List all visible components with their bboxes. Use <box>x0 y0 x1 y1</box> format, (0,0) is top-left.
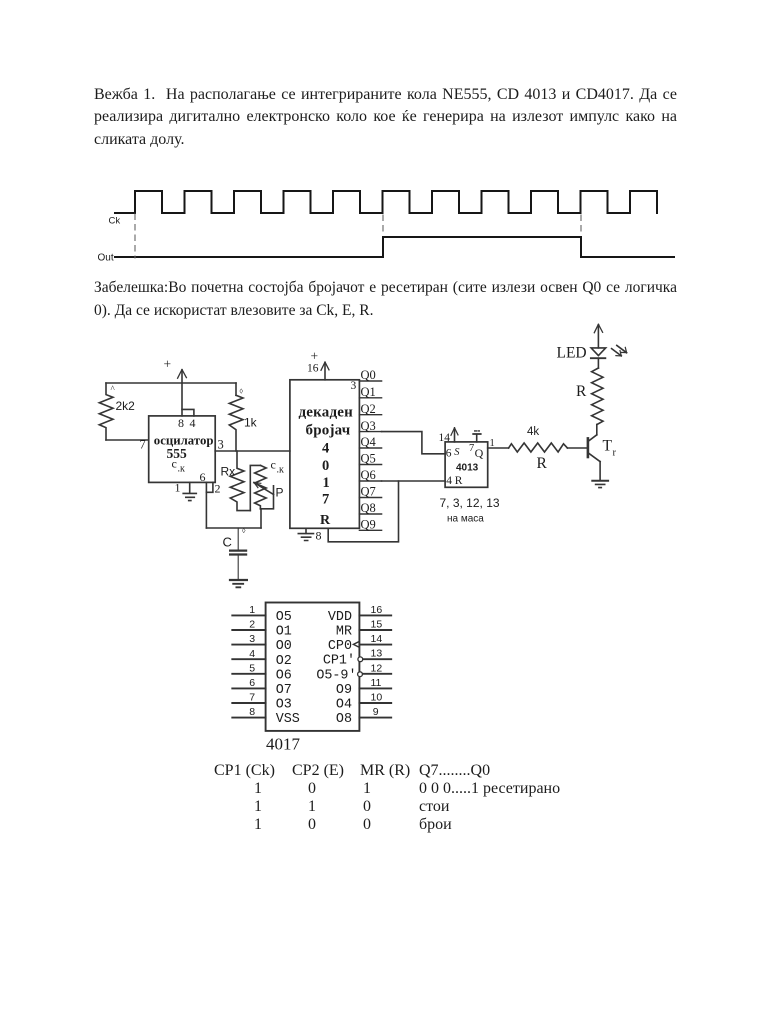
node dashed marker rising edge <box>382 215 384 236</box>
pin label R (4013) <box>455 475 463 487</box>
svg-text:6: 6 <box>249 677 255 689</box>
ground below C <box>230 580 247 587</box>
svg-text:1k: 1k <box>244 416 258 430</box>
svg-text:Out: Out <box>98 253 114 264</box>
wire Q6 branch to MR <box>328 481 398 542</box>
svg-text:4: 4 <box>249 648 255 660</box>
pin 5 lead <box>232 673 265 675</box>
pin number 9 <box>373 706 379 718</box>
wire emitter <box>599 462 601 481</box>
net label Q3 <box>361 419 376 433</box>
svg-text:9: 9 <box>373 706 379 718</box>
pin number 14 <box>371 633 383 645</box>
value label 2k2 <box>116 399 136 413</box>
pin 8 ground 4017 <box>298 528 313 540</box>
label 555 <box>167 446 188 461</box>
LED light arrow 1 <box>612 349 622 356</box>
svg-text:Ck: Ck <box>109 216 121 227</box>
resistor 1k <box>229 395 243 451</box>
pin 1 ground 555 <box>183 482 196 500</box>
pin number 1 <box>249 604 255 616</box>
pin label 8 (555) <box>178 416 184 430</box>
pin number 13 <box>371 648 383 660</box>
net label Q6 <box>361 468 376 482</box>
svg-text:MR: MR <box>336 625 352 640</box>
wire P bottom to rail <box>260 509 262 528</box>
note paragraph <box>94 277 677 322</box>
label c_k 555 <box>172 457 186 475</box>
net label Q2 <box>361 402 376 416</box>
svg-text:4013: 4013 <box>456 463 479 474</box>
svg-text:VSS: VSS <box>276 712 300 727</box>
label Ck (timing) <box>109 216 121 227</box>
node dashed marker t0 <box>134 214 136 258</box>
marker diamond above 1k <box>240 389 244 396</box>
pin 10 lead <box>359 702 391 704</box>
pin number 10 <box>371 692 383 704</box>
power + arrow 4017 pin 16 <box>321 362 329 380</box>
wire base <box>567 447 586 449</box>
pin name VDD <box>328 610 352 625</box>
svg-text:16: 16 <box>307 363 319 375</box>
svg-text:O5: O5 <box>276 610 292 625</box>
svg-text:Q5: Q5 <box>361 452 376 466</box>
pin Q3 <box>359 431 381 433</box>
svg-text:3: 3 <box>351 380 357 392</box>
wire bottom rail <box>206 527 261 529</box>
svg-text:Q4: Q4 <box>361 435 377 449</box>
svg-text:O5-9′: O5-9′ <box>316 668 356 683</box>
pin 13 lead <box>359 658 391 660</box>
svg-text:1: 1 <box>249 604 255 616</box>
pin label 6 (4013) <box>446 448 452 460</box>
svg-text:Q9: Q9 <box>361 518 376 532</box>
note na masa <box>447 514 484 525</box>
label digit 0 <box>322 458 329 474</box>
svg-text:R: R <box>537 455 548 472</box>
svg-text:Q6: Q6 <box>361 468 376 482</box>
svg-text:6: 6 <box>446 448 452 460</box>
pin Q2 <box>359 414 381 416</box>
pin 12 lead <box>359 673 391 675</box>
net label Q0 <box>361 368 376 382</box>
svg-text:O8: O8 <box>336 712 352 727</box>
svg-text:на маса: на маса <box>447 514 484 525</box>
label + supply 4017 <box>311 349 319 364</box>
counter U2 4017 box <box>290 380 360 529</box>
svg-text:7: 7 <box>469 443 474 454</box>
svg-text:с: с <box>172 457 177 471</box>
svg-text:O9: O9 <box>336 683 352 698</box>
pin number 5 <box>249 662 255 674</box>
pin number 12 <box>371 662 383 674</box>
pin 8 lead <box>232 717 265 719</box>
pin label Q (4013) <box>475 446 484 460</box>
net label Q8 <box>361 501 376 515</box>
note 7,3,12,13 <box>440 496 500 510</box>
svg-text:O0: O0 <box>276 639 292 654</box>
svg-text:декаден: декаден <box>299 405 354 421</box>
pin label 2 (555) <box>215 482 221 496</box>
svg-text:7: 7 <box>322 492 329 508</box>
diode LED <box>591 348 606 368</box>
pin name O5-9 <box>316 668 356 683</box>
svg-text:S: S <box>454 447 460 458</box>
pin label 14 (4013) <box>439 432 451 444</box>
clock triangle CP0 <box>353 642 359 648</box>
svg-text:LED: LED <box>557 345 587 362</box>
wire LED anode up <box>597 325 599 348</box>
svg-text:O1: O1 <box>276 625 292 640</box>
net label Q5 <box>361 452 376 466</box>
svg-text:◊: ◊ <box>240 389 244 396</box>
pin 9 lead <box>359 717 391 719</box>
pin name CP0 <box>328 639 352 654</box>
wire Q3 to 4013 S <box>382 432 446 454</box>
pin label 16 (4017) <box>307 363 319 375</box>
pin number 3 <box>249 633 255 645</box>
svg-text:.к: .к <box>178 464 186 475</box>
pin name O2 <box>276 654 292 669</box>
potentiometer P wiper arrow <box>254 483 274 495</box>
svg-text:Q2: Q2 <box>361 402 376 416</box>
label R input 4017 <box>320 513 331 528</box>
label c_k node <box>271 458 285 476</box>
svg-text:+: + <box>311 349 319 364</box>
svg-text:Q: Q <box>475 446 484 460</box>
value label P <box>276 486 284 500</box>
value label R collector <box>576 383 587 400</box>
svg-text:2: 2 <box>249 619 255 631</box>
op-amp U1 555 box <box>149 416 216 483</box>
svg-text:O2: O2 <box>276 654 292 669</box>
svg-text:1: 1 <box>175 481 181 495</box>
pin label 4 (555) <box>190 416 196 430</box>
svg-text:^: ^ <box>111 384 116 394</box>
svg-text:3: 3 <box>218 438 224 452</box>
label Out (timing) <box>98 253 114 264</box>
svg-text:4017: 4017 <box>266 735 301 754</box>
ground emitter <box>592 481 608 488</box>
pin name O6 <box>276 668 292 683</box>
node dashed marker falling edge <box>580 215 582 235</box>
pin Q4 <box>359 447 381 449</box>
svg-text:CP0: CP0 <box>328 639 352 654</box>
value label 1k <box>244 416 258 430</box>
svg-text:1: 1 <box>490 438 495 449</box>
pin number 15 <box>371 619 383 631</box>
wire pin 2 down <box>205 492 207 528</box>
pin label 4 (4013) <box>446 475 452 487</box>
ground small above 4013 pin 7 <box>473 431 481 442</box>
inversion circle CP1 <box>358 657 363 662</box>
pin name VSS <box>276 712 300 727</box>
wire 1k top stub <box>235 383 237 395</box>
pin Q6 <box>359 480 381 482</box>
net label Q1 <box>361 385 376 399</box>
pin 1 lead <box>232 614 265 616</box>
svg-text:с: с <box>271 458 276 472</box>
svg-text:8: 8 <box>249 706 255 718</box>
wire Vcc rail top <box>106 382 236 384</box>
net label Q4 <box>361 435 377 449</box>
marker diamond at C junction <box>242 528 246 535</box>
paragraph 1 <box>94 84 677 151</box>
label digit 7 <box>322 492 329 508</box>
svg-text:C: C <box>223 535 232 550</box>
pin Q7 <box>359 497 381 499</box>
pin number 16 <box>371 604 383 616</box>
potentiometer P body <box>255 465 267 508</box>
svg-text:2k2: 2k2 <box>116 399 136 413</box>
pin number 8 <box>249 706 255 718</box>
svg-text:R: R <box>455 475 463 487</box>
net label Q9 <box>361 518 376 532</box>
svg-text:Q7: Q7 <box>361 485 376 499</box>
wire Q6 to 4013 R <box>382 480 446 482</box>
pin label 1 (4013) <box>490 438 495 449</box>
pin label 6 (555) <box>200 470 206 484</box>
svg-text:8: 8 <box>316 529 322 543</box>
pin name O7 <box>276 683 292 698</box>
pin name MR <box>336 625 352 640</box>
pin 11 lead <box>359 687 391 689</box>
label 4017 <box>266 735 301 754</box>
pin Q9 <box>359 529 381 531</box>
svg-text:13: 13 <box>371 648 383 660</box>
pin label 8 (4017) <box>316 529 322 543</box>
svg-text:◊: ◊ <box>242 528 246 535</box>
pin number 11 <box>371 677 382 689</box>
pin name O3 <box>276 698 292 713</box>
svg-text:R: R <box>576 383 587 400</box>
IC package 4017 pinout box <box>266 603 360 731</box>
svg-text:8: 8 <box>178 416 184 430</box>
svg-text:3: 3 <box>249 633 255 645</box>
svg-text:R: R <box>320 513 331 528</box>
svg-text:Q1: Q1 <box>361 385 376 399</box>
svg-text:0: 0 <box>322 458 329 474</box>
net label Q7 <box>361 485 376 499</box>
label декаден <box>299 405 354 421</box>
svg-text:7: 7 <box>140 438 146 452</box>
svg-text:Q0: Q0 <box>361 368 376 382</box>
svg-text:T: T <box>603 438 613 455</box>
svg-text:Rx: Rx <box>221 465 236 479</box>
value label R (4k) <box>537 455 548 472</box>
pin number 7 <box>249 692 255 704</box>
svg-text:10: 10 <box>371 692 383 704</box>
pin 2 lead <box>232 629 265 631</box>
pin Q5 <box>359 464 381 466</box>
pin 6 lead <box>232 687 265 689</box>
value label C <box>223 535 232 550</box>
svg-text:O4: O4 <box>336 698 352 713</box>
svg-text:5: 5 <box>249 662 255 674</box>
svg-text:7, 3, 12, 13: 7, 3, 12, 13 <box>440 496 500 510</box>
value label Rx <box>221 465 236 479</box>
pin 3 lead <box>232 644 265 646</box>
pin number 2 <box>249 619 255 631</box>
pin number 4 <box>249 648 255 660</box>
wire 4013 Q pin 1 output <box>488 447 509 449</box>
potentiometer P wiper bracket <box>260 486 273 509</box>
pin notch 4 on 555 top <box>182 409 194 416</box>
wire 2k2 to pin 7 <box>106 439 149 441</box>
svg-text:14: 14 <box>439 432 451 444</box>
LED light arrow 2 <box>617 345 627 352</box>
svg-text:11: 11 <box>371 677 382 689</box>
pin label 3 (555) <box>218 438 224 452</box>
transistor Q1 Tr <box>588 435 600 462</box>
svg-text:1: 1 <box>323 475 330 491</box>
svg-text:+: + <box>164 357 172 372</box>
pin Q1 <box>359 397 381 399</box>
svg-text:12: 12 <box>371 662 383 674</box>
wire collector <box>596 425 598 435</box>
svg-text:Q8: Q8 <box>361 501 376 515</box>
capacitor C <box>230 528 246 579</box>
label бројач <box>306 423 351 439</box>
label осцилатор <box>154 434 214 448</box>
pin name O8 <box>336 712 352 727</box>
label LED <box>557 345 587 362</box>
wire clock trace Ck <box>115 191 657 213</box>
svg-text:16: 16 <box>371 604 383 616</box>
pin 7 lead <box>232 702 265 704</box>
pin name O9 <box>336 683 352 698</box>
pin name O5 <box>276 610 292 625</box>
svg-text:Q3: Q3 <box>361 419 376 433</box>
pin Q8 <box>359 513 381 515</box>
svg-text:P: P <box>276 486 284 500</box>
pin label 1 (555) <box>175 481 181 495</box>
pin label S (4013) <box>454 447 460 458</box>
power + arrow 555 pin 8 <box>178 370 187 416</box>
marker dot above 2k2 <box>111 384 116 394</box>
pin 14 lead <box>359 644 391 646</box>
svg-text:CP1′: CP1′ <box>323 654 355 669</box>
svg-text:VDD: VDD <box>328 610 352 625</box>
label 4013 <box>456 463 479 474</box>
svg-text:бројач: бројач <box>306 423 351 439</box>
resistor R collector <box>592 368 603 425</box>
value label 4k <box>527 426 539 438</box>
wire output trace Out <box>115 237 674 257</box>
pin notch 2 on 555 bottom <box>206 482 213 492</box>
svg-text:2: 2 <box>215 482 221 496</box>
pin 15 lead <box>359 629 391 631</box>
svg-text:7: 7 <box>249 692 255 704</box>
label digit 4 <box>322 441 329 457</box>
inversion circle O5-9 <box>358 672 363 677</box>
resistor 2k2 <box>99 383 113 440</box>
svg-text:15: 15 <box>371 619 383 631</box>
svg-text:4: 4 <box>322 441 329 457</box>
svg-text:4k: 4k <box>527 426 539 438</box>
pin name CP1 <box>323 654 355 669</box>
pin 4 lead <box>232 658 265 660</box>
pin label 7 (555) <box>140 438 146 452</box>
resistor R 4k <box>509 443 568 452</box>
pin 16 lead <box>359 614 391 616</box>
pin number 6 <box>249 677 255 689</box>
svg-text:O3: O3 <box>276 698 292 713</box>
svg-text:4: 4 <box>190 416 196 430</box>
pin label 3 inside 4017 <box>351 380 357 392</box>
label + supply 555 <box>164 357 172 372</box>
pin Q0 <box>359 380 381 382</box>
pin name O1 <box>276 625 292 640</box>
power + arrow 4013 pin 14 <box>451 428 458 442</box>
pin label 7 (4013) <box>469 443 474 454</box>
svg-text:.к: .к <box>277 465 285 476</box>
svg-text:O7: O7 <box>276 683 292 698</box>
wire pin 3 output <box>215 450 290 452</box>
svg-text:r: r <box>613 448 617 459</box>
svg-text:6: 6 <box>200 470 206 484</box>
svg-text:O6: O6 <box>276 668 292 683</box>
svg-text:14: 14 <box>371 633 383 645</box>
power arrow LED supply <box>594 324 602 332</box>
flip-flop U3 4013 box <box>445 442 488 487</box>
svg-text:4: 4 <box>446 475 452 487</box>
label Tr <box>603 438 617 459</box>
resistor Rx <box>230 451 250 511</box>
pin name O0 <box>276 639 292 654</box>
label digit 1 <box>323 475 330 491</box>
potentiometer P loop left <box>250 465 260 510</box>
pin name O4 <box>336 698 352 713</box>
